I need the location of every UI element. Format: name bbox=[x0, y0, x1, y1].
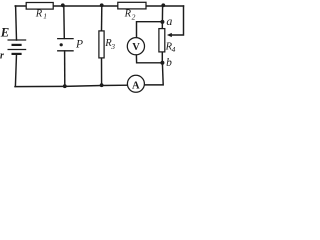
point P dot inside capacitor bbox=[60, 43, 63, 46]
wire left edge lower (battery bottom lead) bbox=[15, 54, 16, 86]
resistor R1 bbox=[26, 3, 53, 10]
svg-text:R: R bbox=[124, 9, 132, 20]
wire voltmeter bottom lead to node b bbox=[136, 55, 162, 63]
junction dot a-branch top bbox=[161, 3, 165, 7]
wire capacitor branch upper bbox=[63, 6, 66, 38]
svg-text:3: 3 bbox=[110, 42, 115, 51]
svg-text:4: 4 bbox=[172, 45, 176, 54]
wire left edge upper (battery top lead) bbox=[15, 6, 18, 40]
svg-text:1: 1 bbox=[43, 12, 47, 21]
rheostat wiper arrowhead bbox=[167, 33, 172, 37]
battery cell plate short thick (bottom) bbox=[12, 53, 22, 55]
svg-text:V: V bbox=[132, 42, 140, 53]
wire node b down to bottom bbox=[144, 63, 163, 85]
junction dot R3 branch top bbox=[100, 3, 104, 7]
svg-text:b: b bbox=[166, 57, 172, 69]
wire top bus bbox=[15, 5, 183, 7]
wire R4 bottom to node b bbox=[161, 52, 163, 63]
wire bottom bus bbox=[15, 85, 128, 86]
junction dot capacitor branch bottom bbox=[63, 84, 67, 88]
wire rheostat wiper from top-right corner bbox=[171, 6, 184, 35]
capacitor P bottom plate bbox=[57, 50, 74, 52]
ammeter A circle bbox=[127, 75, 144, 92]
voltmeter V circle bbox=[127, 38, 144, 55]
rheostat R4 body bbox=[159, 29, 165, 52]
junction dot R3 branch bottom bbox=[100, 83, 104, 87]
resistor R3 bbox=[99, 31, 104, 58]
capacitor P top plate bbox=[57, 38, 74, 40]
resistor R2 bbox=[118, 2, 146, 9]
svg-text:A: A bbox=[132, 80, 140, 91]
junction dot capacitor branch top bbox=[61, 3, 65, 7]
svg-text:E: E bbox=[0, 25, 9, 39]
svg-text:r: r bbox=[0, 51, 4, 62]
node a junction dot bbox=[160, 20, 164, 24]
wire R3 branch lower bbox=[101, 58, 103, 86]
svg-text:2: 2 bbox=[132, 12, 136, 21]
wire voltmeter top lead to node a bbox=[137, 22, 163, 38]
wire node-a branch from top bus bbox=[161, 6, 163, 29]
node b junction dot bbox=[160, 61, 164, 65]
battery cell plate short thick bbox=[12, 44, 22, 46]
svg-text:a: a bbox=[166, 14, 172, 28]
wire capacitor branch lower bbox=[64, 51, 66, 86]
svg-text:R: R bbox=[35, 8, 43, 19]
wire R3 branch upper bbox=[101, 6, 103, 31]
battery cell plate long (second) bbox=[8, 49, 27, 51]
battery cell plate long (top) bbox=[8, 39, 27, 41]
svg-text:P: P bbox=[75, 39, 83, 51]
